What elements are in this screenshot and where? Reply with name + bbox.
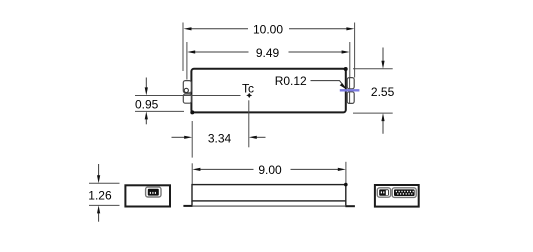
2.55 top arrow — [381, 61, 384, 69]
svg-text:Tc: Tc — [242, 82, 254, 96]
2.55 bottom arrow — [381, 113, 384, 121]
package body top view — [191, 69, 345, 113]
0.95 top arrow stem — [145, 78, 147, 89]
dimension 10.00 line right — [289, 28, 347, 30]
svg-text:1.26: 1.26 — [88, 188, 112, 202]
1.26 bottom arrow — [97, 205, 100, 213]
1.26 top arrow — [97, 175, 100, 183]
extension line 9.49 left — [186, 42, 188, 80]
right end view pad 2 metal — [394, 189, 415, 196]
side view lid — [192, 185, 346, 201]
right end view body — [375, 185, 419, 207]
right end view pad 1 slot — [386, 190, 388, 195]
svg-text:9.00: 9.00 — [258, 163, 282, 177]
1.26 bottom arrow stem — [98, 213, 100, 222]
3.34 right extension / Tc centerline — [248, 100, 250, 147]
svg-text:9.49: 9.49 — [256, 46, 280, 60]
arrow 10.00 right — [346, 27, 354, 30]
left castellation upper — [183, 81, 191, 93]
2.55 top arrow stem — [382, 48, 384, 62]
vertex dot bottom-left — [190, 110, 194, 114]
arrow 9.49 left — [187, 50, 195, 53]
svg-text:3.34: 3.34 — [208, 131, 232, 145]
3.34 right arrow stem — [257, 136, 266, 138]
9.00 right arrow — [338, 168, 346, 171]
3.34 right arrow — [249, 136, 257, 139]
arrow 10.00 left — [184, 27, 192, 30]
leader R0.12 — [311, 81, 346, 88]
0.95 top arrow — [145, 87, 148, 95]
2.55 bottom extension — [353, 112, 393, 114]
svg-text:2.55: 2.55 — [371, 85, 395, 99]
centerline / 0.95 upper extension — [135, 95, 241, 97]
svg-text:0.95: 0.95 — [135, 97, 159, 111]
highlighted edge (blue) — [340, 89, 360, 91]
right castellation upper inner edge — [349, 78, 351, 89]
side view vertex dot top-right — [344, 183, 348, 187]
1.26 top extension — [89, 182, 120, 184]
svg-text:10.00: 10.00 — [253, 23, 283, 37]
3.34 left extension — [191, 121, 193, 158]
left castellation lower — [183, 94, 191, 103]
vertex dot top-right — [344, 67, 348, 71]
right castellation lower — [347, 92, 354, 104]
left end view body — [125, 185, 170, 206]
3.34 left arrow — [184, 136, 192, 139]
dimension 10.00 line left — [191, 28, 249, 30]
arrow 9.49 right — [342, 50, 350, 53]
0.95 bottom arrow stem — [145, 119, 147, 125]
side view base line — [192, 205, 346, 207]
extension line 9.49 right — [349, 42, 351, 78]
right castellation upper — [347, 78, 354, 89]
right end view pad 2 outline — [392, 188, 416, 198]
Tc point marker — [246, 93, 252, 98]
9.00 dim line right — [291, 168, 339, 170]
side view left wall — [191, 201, 193, 206]
extension line 10.00 left — [182, 23, 184, 72]
pad index circle — [184, 88, 188, 92]
dimension 9.49 line left — [195, 51, 249, 53]
9.00 dim line left — [200, 168, 254, 170]
left end view pad specks — [150, 192, 156, 194]
9.00 right extension — [345, 162, 347, 184]
left end view pad metal — [148, 189, 159, 196]
1.26 bottom extension — [89, 204, 120, 206]
9.00 left arrow — [192, 168, 200, 171]
2.55 bottom arrow stem — [382, 121, 384, 134]
left end view pad outline — [146, 187, 161, 197]
side view right wall — [345, 201, 347, 206]
leader arrowhead — [340, 83, 347, 89]
1.26 top arrow stem — [98, 164, 100, 176]
0.95 lower extension — [135, 110, 184, 112]
dimension 9.49 line right — [289, 51, 343, 53]
right end view pad 1 outline — [377, 188, 390, 197]
side view left foot — [183, 205, 192, 207]
9.00 left extension — [191, 163, 193, 184]
svg-text:R0.12: R0.12 — [275, 74, 307, 88]
side view right foot — [345, 205, 355, 207]
0.95 bottom arrow — [145, 111, 148, 119]
2.55 top extension — [353, 68, 393, 70]
right end view pad 1 specks — [381, 191, 385, 193]
right castellation lower inner edge — [349, 92, 351, 103]
3.34 left arrow stem — [172, 136, 185, 138]
right end view pad 1 metal — [379, 189, 389, 195]
extension line 10.00 right — [354, 23, 356, 78]
right end view pad 2 specks — [396, 191, 414, 195]
